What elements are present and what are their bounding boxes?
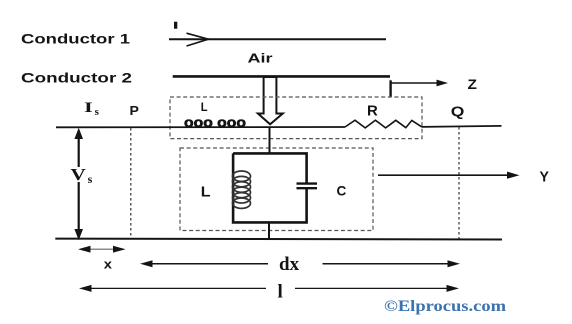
node P dashed line [130,128,132,238]
Y axis arrow [378,174,508,176]
Z connector wire [389,80,391,96]
svg-text:C: C [337,182,347,198]
shunt inductor coil [233,171,251,208]
top wire P to Q [56,126,345,128]
resistor R zigzag [345,120,422,128]
dx span left arrow [143,263,268,265]
node Q dashed line [458,127,460,239]
svg-text:x: x [104,256,113,271]
svg-text:Air: Air [248,52,273,66]
conductor 1 wire [169,38,386,40]
Z axis arrow [391,82,438,84]
Vs arrow (double headed) [78,132,80,167]
svg-text:P: P [130,103,140,118]
svg-text:Y: Y [540,168,549,185]
svg-text:Conductor 2: Conductor 2 [21,70,132,85]
svg-text:ooo ooo: ooo ooo [184,115,246,130]
svg-text:R: R [367,103,378,120]
svg-text:Conductor 1: Conductor 1 [21,32,131,47]
svg-text:L: L [201,184,211,201]
current label I [174,22,177,29]
series impedance dashed box [170,97,422,139]
dx span right arrow [323,263,450,265]
svg-text:Z: Z [468,77,477,92]
svg-text:Q: Q [451,103,465,119]
l span left arrow [82,287,266,289]
shunt admittance dashed box [180,148,373,231]
l span right arrow [295,287,448,289]
shunt branch wire bottom [268,222,270,239]
conductor 2 wire [173,75,390,78]
shunt branch wire top [269,127,271,154]
svg-text:©Elprocus.com: ©Elprocus.com [384,298,507,315]
svg-text:dx: dx [279,254,300,275]
svg-text:L: L [201,100,208,114]
x span double arrow [80,248,124,250]
air dielectric arrow (hollow) [258,77,283,124]
svg-text:l: l [278,282,283,303]
LC loop rectangle [233,153,307,222]
current direction arrow [187,33,209,46]
capacitor C plates [297,182,318,184]
bottom return wire [55,238,502,241]
